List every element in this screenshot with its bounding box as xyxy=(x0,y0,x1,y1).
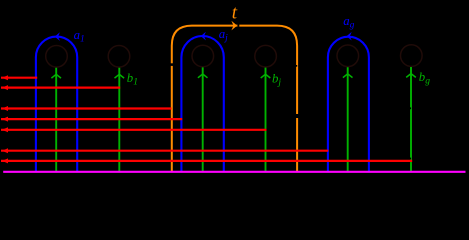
svg-text:t: t xyxy=(232,2,238,23)
